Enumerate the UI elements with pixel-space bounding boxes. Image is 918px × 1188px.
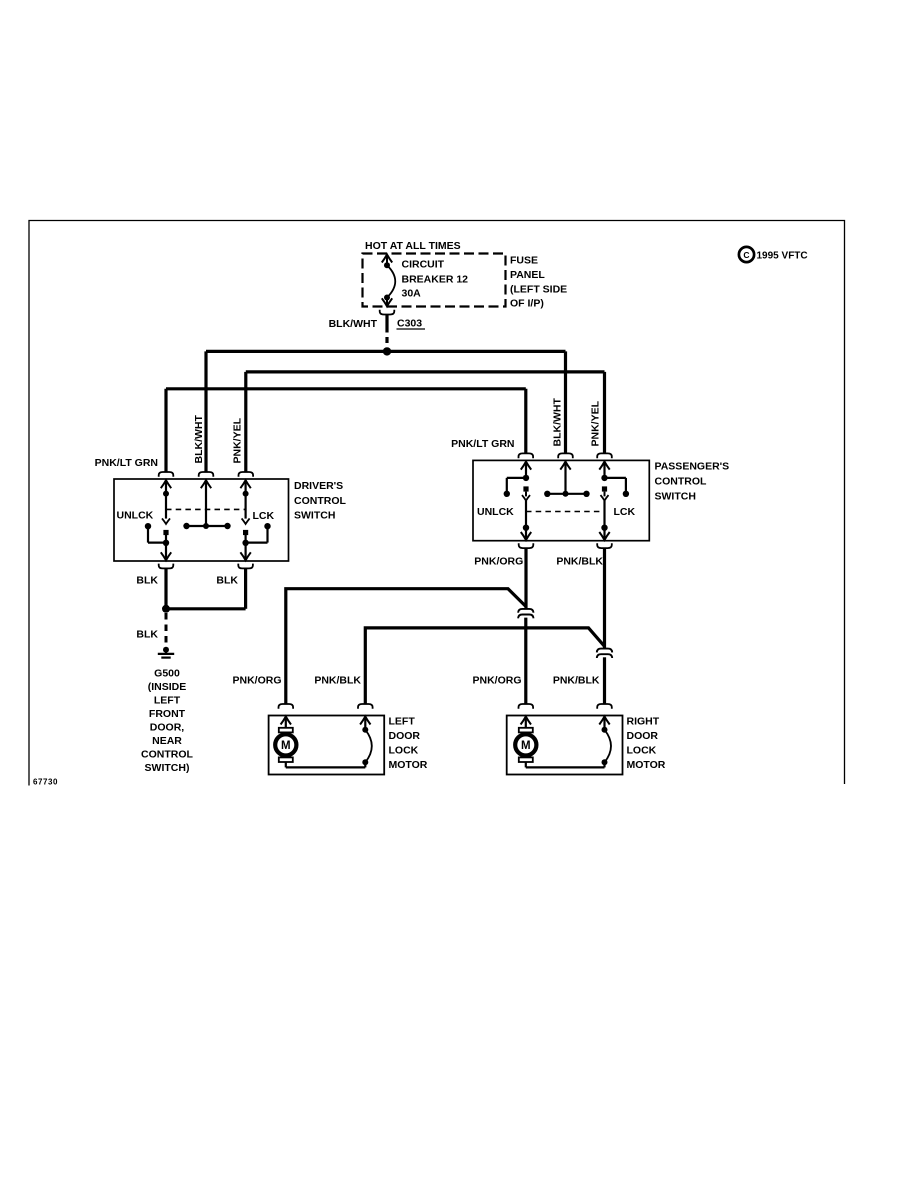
- svg-text:PASSENGER'S: PASSENGER'S: [655, 461, 730, 473]
- svg-text:PNK/LT GRN: PNK/LT GRN: [95, 457, 158, 469]
- svg-text:CIRCUIT: CIRCUIT: [402, 259, 445, 271]
- svg-text:67730: 67730: [33, 778, 58, 787]
- svg-text:FUSE: FUSE: [510, 255, 538, 267]
- svg-text:BREAKER 12: BREAKER 12: [402, 274, 469, 286]
- svg-text:BLK: BLK: [216, 575, 238, 587]
- svg-text:RIGHT: RIGHT: [627, 715, 660, 727]
- svg-text:LOCK: LOCK: [627, 745, 657, 757]
- svg-text:HOT AT ALL TIMES: HOT AT ALL TIMES: [365, 240, 461, 252]
- svg-text:UNLCK: UNLCK: [117, 509, 154, 521]
- svg-text:(LEFT SIDE: (LEFT SIDE: [510, 284, 567, 296]
- svg-text:PNK/ORG: PNK/ORG: [474, 556, 523, 568]
- svg-text:UNLCK: UNLCK: [477, 506, 514, 518]
- svg-text:DOOR: DOOR: [389, 730, 421, 742]
- svg-text:C: C: [743, 250, 749, 260]
- svg-text:G500: G500: [154, 667, 180, 679]
- svg-text:30A: 30A: [402, 288, 422, 300]
- svg-text:LOCK: LOCK: [389, 745, 419, 757]
- svg-text:CONTROL: CONTROL: [141, 748, 193, 760]
- svg-text:PNK/YEL: PNK/YEL: [590, 400, 602, 446]
- svg-text:LEFT: LEFT: [154, 694, 181, 706]
- svg-text:PNK/ORG: PNK/ORG: [472, 675, 521, 687]
- svg-text:PNK/BLK: PNK/BLK: [314, 675, 361, 687]
- svg-text:BLK/WHT: BLK/WHT: [193, 415, 205, 464]
- svg-text:LEFT: LEFT: [389, 715, 416, 727]
- svg-text:SWITCH: SWITCH: [294, 510, 335, 522]
- svg-text:LCK: LCK: [614, 506, 636, 518]
- svg-text:C303: C303: [397, 318, 422, 330]
- svg-text:SWITCH): SWITCH): [145, 762, 190, 774]
- svg-text:PNK/BLK: PNK/BLK: [556, 556, 603, 568]
- svg-text:OF I/P): OF I/P): [510, 298, 544, 310]
- svg-text:PNK/ORG: PNK/ORG: [232, 675, 281, 687]
- svg-text:PANEL: PANEL: [510, 269, 545, 281]
- svg-text:MOTOR: MOTOR: [627, 759, 666, 771]
- svg-text:BLK/WHT: BLK/WHT: [329, 318, 378, 330]
- svg-text:NEAR: NEAR: [152, 735, 182, 747]
- svg-text:PNK/YEL: PNK/YEL: [232, 417, 244, 463]
- svg-text:PNK/BLK: PNK/BLK: [553, 675, 600, 687]
- svg-text:PNK/LT GRN: PNK/LT GRN: [451, 438, 514, 450]
- svg-text:DRIVER'S: DRIVER'S: [294, 480, 343, 492]
- svg-text:M: M: [281, 740, 291, 752]
- svg-text:LCK: LCK: [253, 510, 275, 522]
- svg-text:FRONT: FRONT: [149, 708, 186, 720]
- svg-text:M: M: [521, 740, 531, 752]
- svg-text:CONTROL: CONTROL: [655, 476, 707, 488]
- svg-text:DOOR: DOOR: [627, 730, 659, 742]
- svg-text:BLK: BLK: [136, 575, 158, 587]
- svg-text:MOTOR: MOTOR: [389, 759, 428, 771]
- svg-text:BLK: BLK: [136, 629, 158, 641]
- svg-text:SWITCH: SWITCH: [655, 491, 696, 503]
- svg-text:BLK/WHT: BLK/WHT: [552, 398, 564, 447]
- svg-text:1995 VFTC: 1995 VFTC: [757, 251, 808, 262]
- svg-text:(INSIDE: (INSIDE: [148, 681, 187, 693]
- svg-text:DOOR,: DOOR,: [150, 721, 185, 733]
- svg-text:CONTROL: CONTROL: [294, 495, 346, 507]
